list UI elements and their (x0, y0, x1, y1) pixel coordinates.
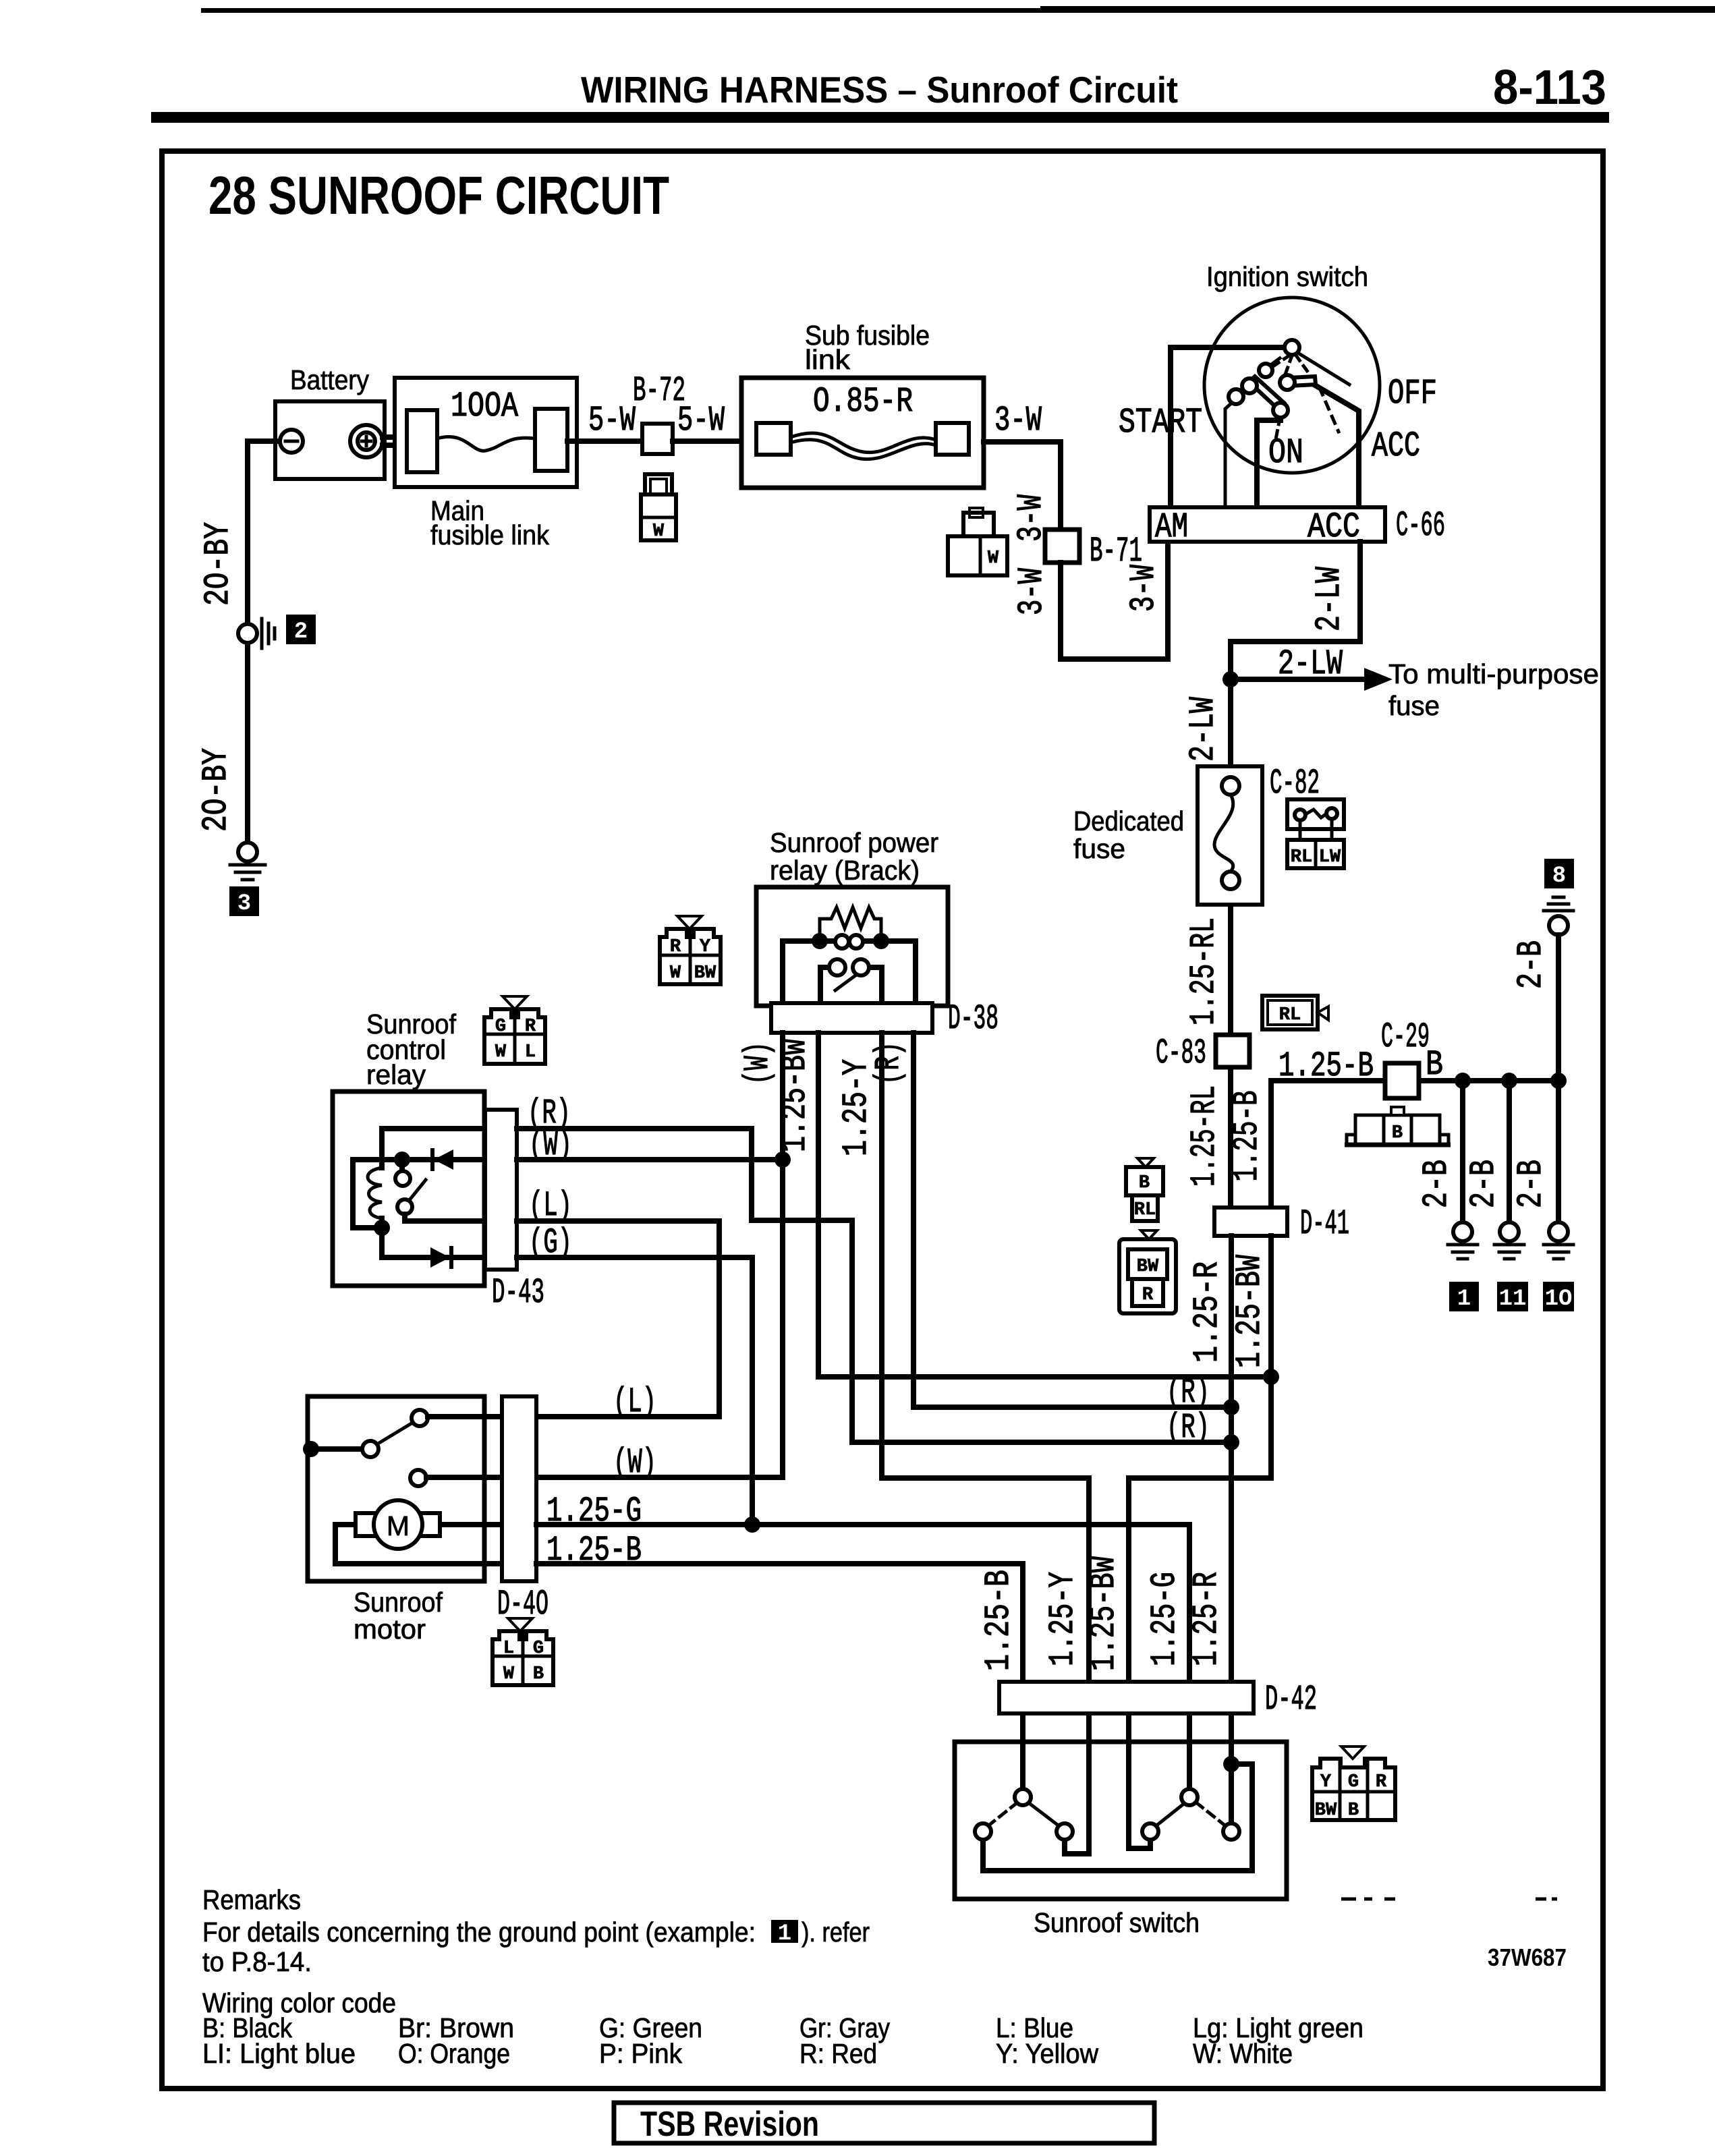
ground 3 number box (229, 886, 259, 916)
svg-text:Y: Y (700, 937, 711, 957)
junction R from control relay (1223, 1434, 1239, 1450)
B plug pin icon (1345, 1107, 1451, 1145)
svg-text:2-LW: 2-LW (1310, 566, 1349, 631)
wire 2-B to ground 11 (1507, 1081, 1512, 1222)
ignition switch circle (1204, 297, 1380, 473)
wire 1.25-B to D-42 (536, 1564, 1023, 1682)
wire (R) from D-38 (913, 1033, 1231, 1407)
svg-text:relay: relay (366, 1059, 426, 1090)
wire 1.25-R D-41 to D-42 (1229, 1236, 1234, 1682)
svg-text:For details concerning the gro: For details concerning the ground point … (202, 1917, 756, 1948)
svg-text:2O-BY: 2O-BY (196, 748, 236, 832)
ground point 11 (1500, 1222, 1519, 1241)
ground point 3 (238, 843, 257, 861)
ground point 10 (1549, 1222, 1568, 1241)
control relay diode on (G) line (430, 1247, 450, 1268)
svg-text:1.25-RL: 1.25-RL (1184, 917, 1224, 1025)
switch arm left solid (1028, 1803, 1059, 1826)
connector C-29 box (1385, 1063, 1419, 1098)
control relay coil (368, 1168, 382, 1218)
control relay (R) internal wire (382, 1129, 485, 1168)
svg-text:2O-BY: 2O-BY (198, 522, 238, 606)
svg-text:1.25-B: 1.25-B (979, 1570, 1019, 1671)
svg-text:1: 1 (778, 1921, 791, 1947)
wire 1.25-Y from D-38 (882, 1033, 1089, 1682)
sunroof switch box (955, 1742, 1287, 1899)
connector D-43 bar (485, 1110, 517, 1270)
svg-text:Sunroof switch: Sunroof switch (1034, 1907, 1200, 1938)
svg-text:W: W (670, 963, 681, 984)
wire 1.25-B corner down to D-41 (1268, 1081, 1274, 1208)
svg-text:D-43: D-43 (492, 1273, 544, 1313)
wire START contact to C-66 (1225, 402, 1233, 507)
svg-text:R: R (525, 1017, 536, 1037)
connector D-42 bar (999, 1682, 1254, 1713)
wire switch R contact (1229, 1713, 1234, 1823)
battery positive terminal (350, 425, 383, 457)
sunroof motor box (308, 1396, 484, 1581)
junction switch R node (1223, 1756, 1239, 1772)
wire (L) relay to motor (517, 1221, 719, 1417)
control relay diode on (W) line (434, 1150, 453, 1170)
svg-text:2-B: 2-B (1417, 1160, 1457, 1208)
wire (W) relay to W vertical (517, 1157, 783, 1162)
main fusible link left terminal (407, 410, 437, 472)
motor M (335, 1525, 502, 1564)
wire (R) relay to red line (517, 1129, 1231, 1442)
svg-text:To multi-purpose: To multi-purpose (1388, 658, 1599, 689)
ignition bridge bar ACC (1289, 376, 1316, 386)
ignition bridge bar START-ON (1249, 376, 1284, 409)
power relay coil junction right (873, 933, 889, 949)
svg-text:START: START (1119, 403, 1202, 443)
svg-text:C-29: C-29 (1381, 1017, 1430, 1057)
svg-text:28 SUNROOF CIRCUIT: 28 SUNROOF CIRCUIT (208, 165, 669, 225)
dedicated fuse top contact (1222, 777, 1239, 795)
header rule (151, 112, 1609, 123)
motor limit switch contact down (410, 1470, 426, 1486)
svg-text:2-LW: 2-LW (1183, 696, 1223, 762)
svg-text:ACC: ACC (1308, 507, 1360, 547)
svg-text:ON: ON (1268, 433, 1303, 473)
svg-text:2-B: 2-B (1511, 1160, 1551, 1208)
sub fusible link left terminal (756, 423, 791, 455)
control relay junction bottom (374, 1220, 390, 1236)
motor limit switch wire (311, 1446, 362, 1452)
svg-text:D-42: D-42 (1265, 1680, 1317, 1720)
switch contact F (975, 1823, 991, 1840)
ground 11 number box (1497, 1282, 1528, 1311)
wire 1.25-RL C-83 to D-41 (1228, 1067, 1233, 1208)
svg-text:L: L (525, 1042, 536, 1062)
connector C-66 box (1150, 507, 1385, 542)
ignition aux contact with stub (1270, 358, 1280, 366)
connector D-38 bar (771, 1003, 932, 1033)
svg-text:W: W (503, 1664, 515, 1684)
svg-text:1.25-R: 1.25-R (1187, 1572, 1227, 1666)
power relay coil left leg (783, 941, 820, 1006)
svg-text:(W): (W) (529, 1125, 572, 1165)
wire battery positive to main fusible link (383, 437, 408, 445)
connector B-72 pin icon (641, 474, 676, 542)
switch contact E (1223, 1823, 1239, 1840)
control relay (L) internal wire (405, 1214, 485, 1221)
power relay coil right leg (881, 941, 916, 1006)
svg-text:WIRING HARNESS – Sunroof Circu: WIRING HARNESS – Sunroof Circuit (581, 69, 1178, 111)
connector B-71 pin icon (948, 508, 1007, 575)
svg-text:3-W: 3-W (1124, 564, 1164, 612)
wire ON contact to C-66 (1257, 416, 1281, 507)
svg-text:P: Pink: P: Pink (599, 2038, 682, 2069)
RL pin icon with arrow (1262, 996, 1328, 1029)
svg-text:W: White: W: White (1193, 2038, 1293, 2069)
svg-text:(L): (L) (529, 1186, 572, 1226)
L G / W B pin icon (493, 1618, 553, 1685)
svg-text:relay (Brack): relay (Brack) (770, 855, 920, 886)
sub fusible link right terminal (936, 423, 969, 455)
wire 2-B to ground 1 (1460, 1081, 1465, 1222)
svg-text:1.25-BW: 1.25-BW (1230, 1254, 1270, 1368)
switch arm right dashed (1196, 1803, 1226, 1826)
junction 2-LW node (1222, 671, 1239, 687)
control relay coil bottom to junction (379, 1218, 385, 1228)
svg-text:G: G (495, 1017, 506, 1037)
wire switch Y contact (1065, 1713, 1089, 1854)
ground 2 number box (286, 615, 316, 644)
power relay resistor (820, 907, 881, 941)
svg-text:(R): (R) (1166, 1373, 1210, 1413)
sub fusible link element wire (791, 433, 936, 453)
wire (G) relay down (517, 1257, 752, 1525)
svg-text:). refer: ). refer (802, 1917, 870, 1948)
svg-text:8-113: 8-113 (1493, 61, 1606, 115)
svg-text:2-B: 2-B (1464, 1160, 1504, 1208)
wire (W) inside motor (426, 1475, 502, 1480)
sunroof control relay box (333, 1091, 484, 1286)
svg-text:B: B (533, 1664, 544, 1684)
wire to multi-purpose fuse with arrow (1231, 677, 1370, 682)
wire 5-W link side (673, 438, 741, 444)
svg-text:LW: LW (1319, 847, 1341, 868)
svg-text:1.25-B: 1.25-B (546, 1531, 642, 1570)
wire 1.25-BW from D-38 (818, 1033, 1271, 1377)
power relay coil (820, 938, 881, 944)
control relay lower contact (397, 1199, 412, 1214)
junction G node (744, 1516, 760, 1533)
svg-text:W: W (495, 1042, 507, 1062)
svg-text:5-W: 5-W (588, 401, 636, 441)
svg-text:8: 8 (1552, 863, 1566, 889)
svg-text:R: R (1376, 1772, 1387, 1792)
motor limit switch contact left (362, 1441, 378, 1457)
switch contact D (1181, 1789, 1198, 1805)
svg-text:(W): (W) (613, 1443, 656, 1483)
svg-text:R: R (670, 937, 681, 957)
wire switch R loop to F contact (983, 1764, 1252, 1871)
control relay (G) internal wire (382, 1228, 485, 1257)
connector D-41 bar (1214, 1208, 1287, 1236)
svg-text:1: 1 (1457, 1286, 1471, 1312)
svg-text:BW: BW (1137, 1257, 1159, 1277)
power relay coil junction left (812, 933, 828, 949)
C-82 pin icon (fuse cell) (1287, 799, 1344, 868)
ignition ON contact (1273, 403, 1288, 418)
svg-text:1.25-B: 1.25-B (1227, 1091, 1267, 1182)
control relay (W) internal wire (353, 1157, 485, 1162)
switch contact B (1057, 1823, 1073, 1840)
switch arm right solid (1156, 1803, 1185, 1826)
svg-text:O: Orange: O: Orange (398, 2038, 510, 2069)
wire 20-BY lower segment (245, 643, 250, 843)
motor limit switch common node (303, 1441, 319, 1457)
wire switch G contact (1187, 1713, 1192, 1789)
svg-text:D-41: D-41 (1300, 1204, 1349, 1244)
wire 1.25-RL fuse to C-83 (1228, 905, 1233, 1035)
svg-text:OFF: OFF (1388, 374, 1437, 414)
svg-text:TSB Revision: TSB Revision (640, 2105, 819, 2144)
svg-text:37W687: 37W687 (1488, 1944, 1567, 1971)
svg-text:5-W: 5-W (677, 401, 725, 441)
wire battery negative to ground lead (248, 441, 281, 624)
svg-text:3: 3 (237, 891, 251, 917)
ignition contact ACC-bar left (1280, 375, 1295, 390)
connector C-83 box (1216, 1035, 1249, 1067)
main fusible link right terminal (535, 409, 567, 471)
page top edge line (201, 8, 1040, 13)
svg-text:RL: RL (1291, 847, 1312, 868)
svg-text:R: R (1142, 1285, 1154, 1305)
svg-text:C-83: C-83 (1156, 1033, 1206, 1073)
wire 2-LW from ACC (1231, 542, 1360, 766)
wire 3-W to ignition (984, 442, 1061, 530)
svg-text:L: L (503, 1639, 514, 1659)
svg-text:1.25-B: 1.25-B (1278, 1046, 1374, 1086)
svg-text:fuse: fuse (1388, 690, 1440, 721)
ground 10 number box (1543, 1282, 1574, 1311)
svg-text:C-66: C-66 (1396, 506, 1445, 546)
svg-text:1.25-G: 1.25-G (546, 1492, 642, 1531)
svg-text:1.25-G: 1.25-G (1145, 1572, 1185, 1666)
power relay switch arm (835, 975, 855, 990)
main fusible link box (395, 378, 577, 487)
svg-text:1OOA: 1OOA (451, 387, 519, 426)
ground point 2 (wire-through ground) (238, 624, 257, 643)
svg-text:W: W (653, 521, 665, 542)
svg-text:11: 11 (1499, 1286, 1527, 1312)
control relay switch arm (409, 1180, 426, 1201)
junction R from D-38 (1223, 1399, 1239, 1415)
dedicated fuse C-82 box (1198, 766, 1262, 905)
connector B-71 (1045, 530, 1079, 563)
svg-text:Dedicated: Dedicated (1073, 805, 1184, 836)
remarks example ground box (771, 1920, 798, 1943)
svg-text:RL: RL (1279, 1005, 1301, 1025)
svg-text:B: B (1392, 1123, 1403, 1143)
svg-text:1.25-RL: 1.25-RL (1185, 1085, 1225, 1187)
svg-text:O.85-R: O.85-R (813, 382, 913, 422)
svg-text:BW: BW (1315, 1800, 1337, 1821)
svg-text:Ignition switch: Ignition switch (1206, 261, 1368, 292)
svg-text:(W): (W) (738, 1042, 778, 1085)
svg-text:R: Red: R: Red (799, 2038, 877, 2069)
svg-text:2-LW: 2-LW (1278, 644, 1343, 684)
wire ACC contact to C-66 (1315, 385, 1359, 507)
switch contact A (1015, 1789, 1031, 1805)
wire 1.25-BW D-41 down (1129, 1236, 1271, 1682)
wire 2-B to ground 10 (1556, 1081, 1561, 1222)
ground point 1 (1453, 1222, 1472, 1241)
svg-text:RL: RL (1134, 1200, 1156, 1220)
svg-text:fusible link: fusible link (430, 519, 549, 550)
junction 2-B bus node 3 (1550, 1073, 1567, 1089)
dedicated fuse bottom contact (1222, 872, 1239, 889)
ignition pivot contact (1285, 340, 1299, 355)
wire 2-B to ground 8 (1556, 935, 1561, 1081)
svg-text:Y: Y (1320, 1772, 1332, 1792)
svg-text:M: M (387, 1510, 410, 1541)
stray scan dashes right of switch box (1341, 1898, 1557, 1901)
sub fusible link box (741, 378, 984, 488)
svg-text:BW: BW (694, 963, 716, 984)
svg-text:1.25-R: 1.25-R (1187, 1261, 1227, 1363)
svg-text:(L): (L) (613, 1382, 656, 1422)
junction 2-B bus node 1 (1455, 1073, 1471, 1089)
main fusible link element wire (437, 436, 535, 451)
svg-text:B: B (1139, 1173, 1150, 1193)
ignition switch arm to OFF (1297, 352, 1349, 385)
svg-text:Y: Yellow: Y: Yellow (996, 2038, 1098, 2069)
switch contact C (1142, 1823, 1158, 1840)
svg-text:D-38: D-38 (948, 999, 999, 1039)
svg-text:1.25-BW: 1.25-BW (775, 1038, 815, 1152)
motor limit switch arm (376, 1422, 414, 1445)
wire 3-W B-71 to AM (1061, 544, 1168, 659)
svg-text:LI: Light blue: LI: Light blue (202, 2038, 356, 2069)
control relay left leg (353, 1160, 382, 1228)
wire switch BW contact (1129, 1713, 1150, 1848)
svg-text:2: 2 (294, 619, 308, 645)
svg-text:fuse: fuse (1073, 833, 1125, 864)
switch arm left dashed (988, 1803, 1017, 1826)
ground point 8 (1544, 897, 1573, 911)
dedicated fuse element (1214, 795, 1233, 872)
svg-text:B: B (1426, 1045, 1443, 1085)
svg-text:ACC: ACC (1372, 426, 1420, 466)
ground 8 number box (1544, 859, 1574, 888)
wire 5-W battery side (567, 438, 642, 444)
junction 2-B bus node 2 (1501, 1073, 1517, 1089)
svg-text:3-W: 3-W (994, 401, 1042, 441)
wire AM feed to pivot (1171, 347, 1285, 507)
control relay upper contact (399, 1160, 405, 1170)
battery negative terminal (280, 430, 303, 453)
connector D-40 bar (502, 1396, 536, 1581)
wire (L) inside motor (428, 1414, 502, 1419)
wire 1.25-B horizontal to C-29 (1271, 1078, 1385, 1083)
wire switch B contact (1020, 1713, 1025, 1789)
svg-text:2-B: 2-B (1511, 940, 1551, 989)
svg-text:Battery: Battery (290, 364, 369, 395)
power relay switch contacts (820, 967, 882, 1006)
svg-text:1O: 1O (1545, 1286, 1573, 1312)
svg-text:1.25-Y: 1.25-Y (1043, 1572, 1083, 1666)
ignition contact left of bar (1242, 378, 1257, 393)
svg-text:W: W (988, 548, 999, 569)
svg-text:G: G (1348, 1772, 1359, 1792)
battery box (275, 401, 385, 479)
svg-text:motor: motor (354, 1614, 426, 1645)
control relay junction top (W) (394, 1152, 410, 1168)
junction BW from D-38 (1263, 1369, 1279, 1385)
svg-text:Sunroof power: Sunroof power (770, 827, 938, 858)
TSB Revision box (614, 2103, 1154, 2143)
R Y / W BW pin icon (660, 916, 721, 984)
B/RL pin icon (1126, 1158, 1163, 1221)
diagram outer border frame (162, 151, 1603, 2089)
svg-text:(G): (G) (529, 1223, 572, 1263)
ignition dashed positions (1271, 356, 1289, 368)
motor limit switch contact up (412, 1410, 428, 1426)
svg-text:link: link (805, 344, 851, 375)
wire 1.25-G to D-42 (536, 1525, 1189, 1682)
sunroof power relay box (756, 887, 948, 1006)
svg-text:1.25-BW: 1.25-BW (1084, 1556, 1124, 1671)
ignition START contact (1229, 389, 1243, 404)
svg-text:G: G (533, 1639, 544, 1659)
wire (W) from D-38 (536, 1033, 783, 1477)
BW/R pin icon (1119, 1230, 1176, 1313)
svg-text:3-W: 3-W (1012, 567, 1052, 615)
Y G R / BW B pin icon (1312, 1747, 1395, 1821)
connector B-72 (642, 424, 673, 454)
ground 1 number box (1449, 1282, 1479, 1311)
svg-text:AM: AM (1155, 507, 1188, 547)
svg-text:B: B (1348, 1800, 1359, 1821)
svg-text:Remarks: Remarks (202, 1884, 301, 1915)
wire 2-B bus from C-29 (1419, 1078, 1558, 1083)
svg-text:(R): (R) (869, 1042, 909, 1085)
G R / W L pin icon (484, 996, 545, 1064)
junction W node (775, 1152, 791, 1168)
svg-text:to P.8-14.: to P.8-14. (202, 1946, 312, 1977)
